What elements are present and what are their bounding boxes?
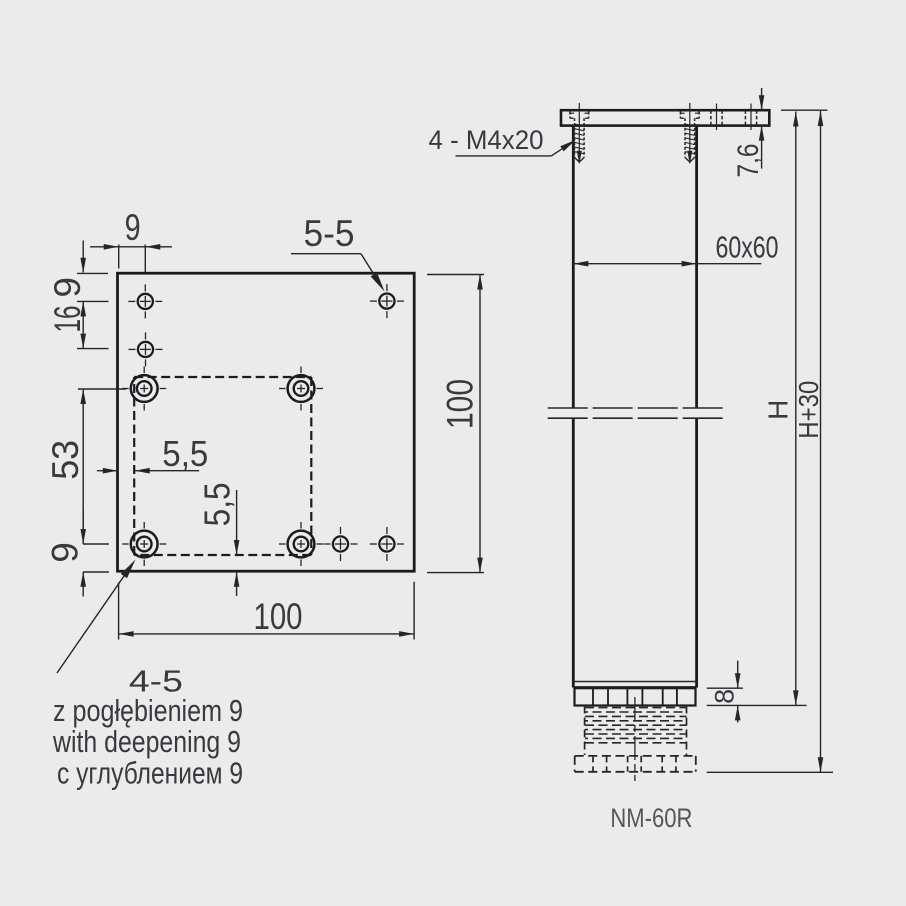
- tube bottom edge: [573, 686, 696, 689]
- leg tube left side (lower): [572, 418, 575, 681]
- counterbored hole 4 inner: [294, 537, 309, 552]
- small hole D: [379, 536, 394, 551]
- tube end cap line: [573, 681, 696, 683]
- adjuster collar: [575, 688, 696, 705]
- svg-text:с углублением 9: с углублением 9: [57, 756, 243, 791]
- dim 100 bottom: right ext: [413, 582, 415, 640]
- small hole A centerlines: [128, 300, 135, 302]
- bottom ext line (H+30 target): [707, 771, 833, 773]
- counterbored hole 2 outer: [288, 375, 315, 402]
- threaded stud (hidden, dashed): [584, 706, 586, 756]
- ext line plate top: [77, 272, 108, 274]
- leg center line: [634, 697, 636, 781]
- svg-text:H+30: H+30: [793, 381, 824, 439]
- svg-text:7,6: 7,6: [732, 144, 765, 178]
- foot base dividers (hidden): [592, 756, 594, 772]
- svg-text:5,5: 5,5: [162, 433, 208, 474]
- dim 5,5 vertical: upper tail: [236, 490, 238, 555]
- small hole 5-5 centerlines: [370, 300, 377, 302]
- ext line hole row 2: [77, 348, 109, 350]
- counterbored hole 3 outer: [131, 531, 158, 558]
- small hole B centerlines: [129, 348, 136, 350]
- break line upper: [548, 407, 725, 409]
- plate outline 100x100 (plan view): [118, 273, 415, 571]
- dim 100 bottom: line: [119, 633, 415, 635]
- svg-text:H: H: [762, 400, 793, 420]
- mounting plate (side view): [561, 110, 769, 125]
- 5-5 leader diagonal: [361, 254, 382, 287]
- svg-text:with deepening 9: with deepening 9: [52, 724, 241, 759]
- dim line 16: [82, 301, 84, 348]
- svg-text:100: 100: [440, 379, 481, 429]
- tail below hole row1: [82, 301, 84, 317]
- svg-text:100: 100: [254, 596, 303, 637]
- collar knurl dividers: [592, 688, 594, 705]
- small hole C: [333, 536, 348, 551]
- counterbored hole 1 inner: [137, 381, 152, 396]
- dim 8 lower tail: [737, 706, 739, 723]
- dim 7,6 upper tail: [761, 88, 763, 110]
- top ext line (H, H+30): [781, 109, 828, 111]
- counterbored hole 3 inner: [137, 537, 152, 552]
- screw M4x20 at x=689.8: [689, 103, 691, 163]
- small hole A: [138, 294, 153, 309]
- dimension 9 (top) extension lines: [118, 245, 120, 269]
- svg-text:5-5: 5-5: [304, 213, 355, 254]
- small hole D centerlines: [370, 543, 377, 545]
- arrow up at plate bottom: [80, 572, 86, 587]
- hidden 60x60 leg profile (dashed square): [134, 376, 311, 378]
- dim 100 right: top ext: [427, 274, 484, 276]
- hidden hole in plate at x=751.0: [750, 104, 752, 131]
- arrow down at hole row 2: [80, 334, 86, 349]
- arrow right at plate edge: [104, 244, 119, 250]
- small hole 5-5: [379, 294, 394, 309]
- dim 5,5 horizontal: right tail: [135, 470, 200, 472]
- ext line plate bottom: [83, 571, 109, 573]
- hole 4 center marks: [279, 543, 286, 545]
- svg-text:16: 16: [47, 306, 88, 333]
- dim 8 upper tail: [737, 661, 739, 688]
- ext line big hole row 1: [78, 388, 126, 390]
- dim 7,6 lower tail: [761, 126, 763, 169]
- ext line big hole row 2: [83, 543, 109, 545]
- dim H+30 line: [820, 111, 822, 772]
- svg-text:53: 53: [45, 440, 86, 480]
- hidden hole in plate at x=716.5: [716, 104, 718, 131]
- dim 100 right: bottom ext: [427, 572, 484, 574]
- dim 60x60 line: [573, 263, 761, 265]
- counterbored hole 1 outer: [131, 375, 158, 402]
- small hole B: [138, 342, 153, 357]
- arrow down at plate top: [80, 258, 86, 273]
- dim 100 right: line: [479, 275, 481, 573]
- svg-text:9: 9: [47, 277, 88, 298]
- 5-5 leader underline: [291, 253, 361, 255]
- break line lower: [548, 417, 725, 419]
- foot base (hidden, dashed): [575, 755, 696, 757]
- M4x20 leader arrow: [560, 137, 577, 151]
- 4-5 leader line: [57, 563, 133, 673]
- left dims: tail above plate top: [82, 241, 84, 273]
- ext line hole row 1: [77, 300, 109, 302]
- screw M4x20 at x=579.3: [578, 103, 580, 163]
- leg tube left side (upper): [572, 126, 575, 408]
- leg tube right side (lower): [695, 418, 698, 681]
- hole 2 center marks: [279, 388, 286, 390]
- svg-text:9: 9: [125, 207, 141, 248]
- dim 5,5 vertical: lower tail: [236, 572, 238, 596]
- counterbored hole 4 outer: [288, 531, 315, 558]
- hole 3 center marks: [122, 543, 129, 545]
- tail above big hole row 2: [82, 510, 84, 544]
- tail below plate bottom: [82, 572, 84, 597]
- svg-text:9: 9: [45, 542, 86, 563]
- svg-text:4 - M4x20: 4 - M4x20: [429, 125, 544, 155]
- dim 8 bottom ext (also H target): [707, 704, 807, 706]
- dim 5,5 horizontal: left tail: [97, 470, 117, 472]
- hole 1 center marks: [122, 388, 129, 390]
- svg-text:60x60: 60x60: [716, 230, 779, 265]
- counterbored hole 2 inner: [294, 381, 309, 396]
- arrow up at hole row 1: [80, 301, 86, 316]
- M4x20 leader underline: [456, 155, 552, 157]
- 5-5 leader arrow: [371, 272, 388, 293]
- svg-text:z pogłębieniem 9: z pogłębieniem 9: [53, 693, 243, 728]
- leg tube right side (upper): [695, 126, 698, 408]
- dim 8 top ext: [707, 687, 743, 689]
- svg-text:8: 8: [710, 689, 740, 704]
- M4x20 leader diagonal: [551, 141, 573, 156]
- arrow left at hole line: [145, 244, 160, 250]
- dimension 9 (top) line: [90, 246, 118, 248]
- svg-text:5,5: 5,5: [197, 482, 238, 526]
- dim line 53: [82, 389, 84, 544]
- svg-text:NM-60R: NM-60R: [610, 803, 692, 833]
- small hole C centerlines: [324, 543, 331, 545]
- dim 100 bottom: left ext: [118, 582, 120, 639]
- 4-5 leader arrow: [121, 557, 139, 578]
- dim H line: [795, 112, 797, 706]
